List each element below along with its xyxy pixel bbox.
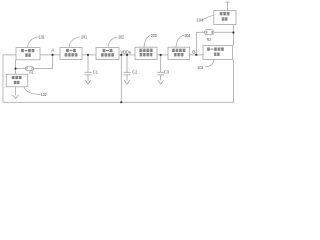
wire left rail vertical bbox=[2, 55, 4, 102]
capacitor C3 bbox=[157, 55, 164, 80]
box4 text line1 bbox=[139, 49, 152, 52]
leader 204 bbox=[176, 35, 184, 47]
wire box1 to box2 bbox=[40, 54, 60, 56]
svg-text:201: 201 bbox=[81, 34, 87, 39]
wire VDD drop to rail bbox=[120, 55, 122, 102]
svg-text:101: 101 bbox=[39, 34, 45, 39]
box1 text line2 bbox=[25, 54, 31, 57]
box 103 second output circuit bbox=[203, 45, 233, 59]
box2 text line1 bbox=[66, 49, 76, 52]
box 204 regulator bbox=[168, 47, 190, 59]
svg-text:A: A bbox=[51, 47, 55, 53]
box 102 battery circuit bbox=[6, 74, 28, 87]
wire battery branch to R1 bbox=[16, 68, 26, 70]
box 101 first stage input circuit bbox=[16, 48, 40, 60]
wire box5 to box6 bbox=[190, 54, 204, 56]
ground C3 bbox=[158, 80, 164, 84]
box6 text line1 bbox=[207, 48, 224, 51]
junction C1 dot bbox=[87, 54, 89, 56]
svg-text:102: 102 bbox=[41, 92, 47, 97]
capacitor C2 bbox=[124, 55, 131, 80]
junction load node dot bbox=[232, 31, 234, 33]
wire battery drop from box1 bbox=[15, 60, 17, 74]
box4 text line2 bbox=[140, 53, 153, 56]
box 201 first passive filter bbox=[60, 48, 82, 60]
box1 text line1 bbox=[21, 49, 34, 52]
leader 102 bbox=[24, 87, 41, 94]
leader 104 bbox=[203, 15, 214, 19]
wire battery ground stub bbox=[15, 87, 17, 96]
battery box text line2 bbox=[14, 81, 20, 84]
capacitor C1 bbox=[85, 55, 92, 80]
ground C1 bbox=[85, 80, 91, 84]
box3 text line1 bbox=[103, 49, 113, 52]
terminal top bar bbox=[226, 2, 230, 10]
leader 202 bbox=[108, 37, 117, 47]
junction C2 dot bbox=[126, 54, 128, 56]
svg-text:203: 203 bbox=[151, 33, 157, 38]
junction node A dot bbox=[52, 54, 54, 56]
leader 203 bbox=[144, 35, 151, 47]
junction VDD dot bbox=[120, 54, 122, 56]
box 203 third filter bbox=[135, 47, 157, 59]
wire node A drop bbox=[52, 55, 54, 69]
svg-text:C2: C2 bbox=[132, 70, 138, 75]
box5 text line1 bbox=[172, 49, 185, 52]
ground C2 bbox=[124, 80, 130, 84]
leader 201 bbox=[69, 37, 80, 47]
svg-text:204: 204 bbox=[185, 33, 191, 38]
svg-text:202: 202 bbox=[118, 35, 124, 40]
leader 101 bbox=[28, 37, 39, 48]
box 104 load circuit bbox=[214, 11, 236, 25]
ground arrow battery bbox=[12, 95, 18, 99]
wire bottom rail bbox=[3, 101, 234, 103]
svg-text:VDDR: VDDR bbox=[120, 49, 131, 55]
svg-text:R1: R1 bbox=[29, 70, 33, 75]
box 202 second passive filter bbox=[96, 48, 119, 60]
wire R1 to node A bbox=[33, 68, 52, 70]
load box text line1 bbox=[220, 12, 230, 15]
resistor R1 bbox=[26, 67, 34, 71]
wire box3 to box4 bbox=[119, 54, 135, 56]
junction rail dot bbox=[120, 101, 122, 103]
box6 text line2 bbox=[214, 53, 220, 56]
wire right rail vertical bbox=[233, 59, 235, 102]
leader 103 bbox=[205, 60, 214, 67]
wire B to R2 bbox=[196, 31, 204, 33]
wire input left bbox=[3, 54, 16, 56]
load box text line2 bbox=[222, 17, 228, 20]
svg-text:C3: C3 bbox=[164, 70, 170, 75]
box3 text line2 bbox=[101, 53, 114, 56]
svg-text:B: B bbox=[192, 49, 195, 55]
junction node B dot bbox=[195, 54, 197, 56]
battery box text line1 bbox=[12, 76, 22, 79]
box2 text line2 bbox=[65, 53, 78, 56]
wire node B vertical bbox=[195, 32, 197, 55]
junction battery branch dot bbox=[14, 68, 16, 70]
resistor R2 bbox=[205, 30, 214, 35]
svg-text:C1: C1 bbox=[93, 70, 99, 75]
wire R2 to load node bbox=[214, 31, 234, 33]
box5 text line2 bbox=[174, 53, 184, 56]
junction C3 dot bbox=[160, 54, 162, 56]
wire load drop bbox=[232, 25, 234, 46]
wire box4 to box5 bbox=[157, 54, 168, 56]
wire box2 to box3 bbox=[82, 54, 96, 56]
svg-text:103: 103 bbox=[197, 65, 203, 70]
svg-text:104: 104 bbox=[196, 18, 204, 23]
svg-text:R2: R2 bbox=[207, 37, 212, 42]
